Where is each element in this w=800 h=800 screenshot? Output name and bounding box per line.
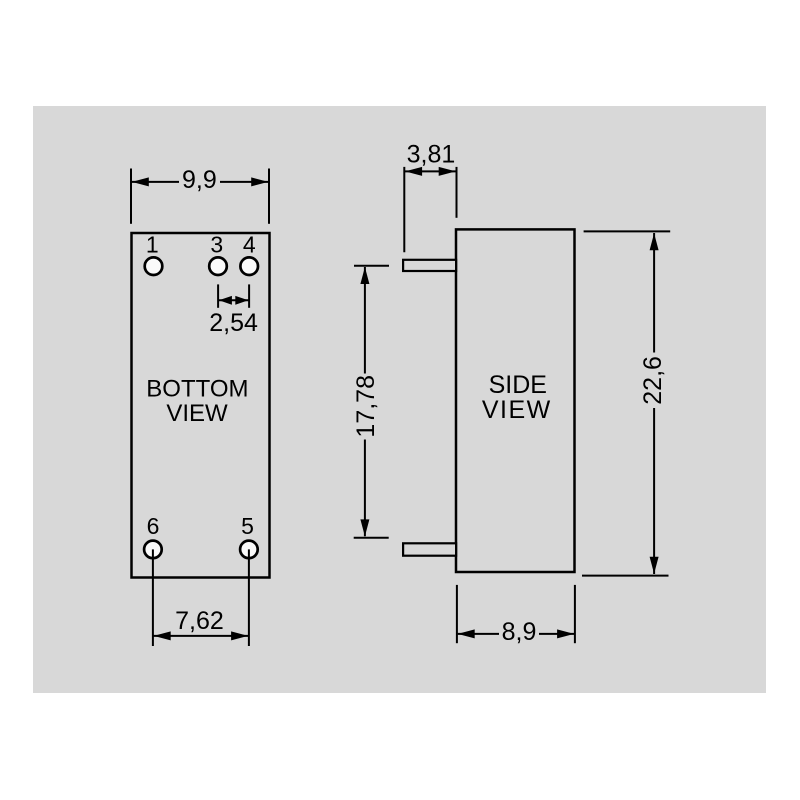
- svg-text:8,9: 8,9: [502, 618, 537, 646]
- svg-text:6: 6: [147, 513, 160, 539]
- svg-text:17,78: 17,78: [352, 375, 380, 438]
- svg-text:2,54: 2,54: [209, 309, 258, 337]
- dimension 3,81: [404, 140, 456, 252]
- svg-text:VIEW: VIEW: [166, 400, 228, 427]
- svg-text:7,62: 7,62: [175, 607, 224, 635]
- wire: pin 6 extension line: [152, 549, 154, 646]
- side view outline: [456, 229, 575, 572]
- dimension 8,9: [457, 585, 575, 646]
- gray drawing panel: [33, 106, 766, 693]
- label BOTTOM VIEW: [146, 375, 248, 427]
- upper lead (side view): [403, 260, 456, 271]
- svg-text:22,6: 22,6: [639, 356, 667, 405]
- svg-text:9,9: 9,9: [182, 166, 217, 194]
- pin 5 hole: [240, 541, 258, 559]
- dimension 2,54: [209, 284, 258, 337]
- svg-text:1: 1: [146, 231, 159, 257]
- dimension 9,9: [131, 166, 269, 224]
- svg-text:3,81: 3,81: [407, 140, 456, 168]
- wire: pin 5 extension line: [248, 549, 250, 646]
- svg-text:BOTTOM: BOTTOM: [146, 375, 248, 402]
- pin 3 hole: [209, 257, 227, 275]
- dimension 17,78: [352, 266, 389, 538]
- svg-text:3: 3: [210, 231, 223, 257]
- svg-text:5: 5: [241, 513, 254, 539]
- pin 5 hole fill: [239, 540, 259, 560]
- bottom view outline: [132, 233, 270, 578]
- svg-text:4: 4: [243, 231, 256, 257]
- lower lead (side view): [403, 543, 456, 555]
- label SIDE VIEW: [482, 371, 552, 424]
- pin 1 hole: [145, 257, 163, 275]
- pin 4 hole: [240, 257, 258, 275]
- svg-text:VIEW: VIEW: [482, 396, 552, 424]
- svg-text:SIDE: SIDE: [489, 371, 547, 399]
- pin 6 hole: [144, 541, 162, 559]
- dimension 7,62: [153, 607, 249, 640]
- dimension 22,6: [582, 231, 670, 575]
- pin 6 hole fill: [143, 540, 163, 560]
